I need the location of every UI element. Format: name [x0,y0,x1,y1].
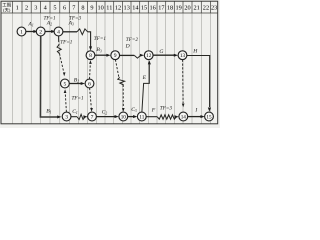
svg-text:22: 22 [203,5,209,12]
svg-text:1: 1 [20,29,23,35]
activity I arrow 14->15 [188,116,203,118]
svg-text:8: 8 [89,53,92,59]
activity G arrow 12->13 [153,54,175,56]
svg-text:14: 14 [132,5,139,12]
svg-text:G: G [159,49,163,55]
svg-text:2: 2 [39,29,42,35]
svg-text:D: D [125,44,130,50]
svg-text:19: 19 [176,5,182,12]
activity B3 arrow 8->9 [95,54,108,56]
svg-text:16: 16 [150,5,156,12]
dummy 9->10 dashed with wave [115,60,119,78]
node 2 [36,27,45,36]
svg-text:14: 14 [181,114,187,120]
svg-text:13: 13 [124,5,130,12]
header scale numbers 1-23 [16,5,218,12]
svg-text:13: 13 [180,53,186,59]
activity E arrow 11->12 (up with jog) [142,64,149,112]
node 11 [137,112,146,121]
activity D arrow 9->12 with wave [120,54,135,56]
svg-text:3: 3 [34,5,37,12]
svg-text:5: 5 [53,5,56,12]
dummy 6->8 dashed up arrow [89,65,92,80]
svg-text:F: F [151,107,156,113]
activity H arrow 13->15 (right then down) [187,56,210,108]
activity B1 arrow 2->3 (down then right) [40,36,58,117]
activity A1 arrow 1->2 [26,31,37,33]
header cell separators [13,1,211,13]
svg-text:15: 15 [141,5,147,12]
svg-text:TF=1: TF=1 [72,96,85,102]
svg-text:17: 17 [158,5,164,12]
svg-text:6: 6 [88,81,91,87]
node 4 [54,27,63,36]
svg-text:21: 21 [194,5,200,12]
svg-text:3: 3 [65,114,68,120]
node 8 [86,51,95,60]
svg-text:7: 7 [91,114,94,120]
node 9 [111,51,120,60]
svg-text:TF=1: TF=1 [60,39,73,45]
node 12 [144,51,153,60]
svg-text:TF=1: TF=1 [44,16,57,22]
svg-text:9: 9 [90,5,93,12]
node 1 [17,27,26,36]
svg-text:4: 4 [57,29,60,35]
svg-text:7: 7 [72,5,75,12]
svg-text:6: 6 [63,5,66,12]
svg-text:1: 1 [16,5,19,12]
activity C1 arrow 3->7 with wave [71,116,77,118]
svg-text:15: 15 [206,114,212,120]
svg-text:12: 12 [146,53,152,59]
node 15 [205,112,214,121]
svg-text:10: 10 [121,114,127,120]
activity B2 arrow 5->6 [69,83,82,85]
grid column lines [13,13,211,124]
node 5 [61,79,70,88]
dummy 4->5 dashed with wave, TF=1 [58,36,60,40]
activity A2 arrow 2->4 [45,31,55,33]
svg-text:TF=3: TF=3 [69,16,82,22]
svg-text:10: 10 [98,5,104,12]
svg-text:TF=1: TF=1 [94,36,107,42]
svg-text:8: 8 [81,5,84,12]
table outer border [1,1,218,124]
svg-text:18: 18 [167,5,173,12]
svg-text:2: 2 [25,5,28,12]
node 7 [88,112,97,121]
dummy 6->7 dashed down arrow [90,88,92,108]
node 13 [178,51,187,60]
node 14 [179,112,188,121]
activity A3 arrow 4->8 with free-float wave [63,31,77,33]
svg-text:TF=2: TF=2 [126,37,139,43]
svg-text:9: 9 [114,53,117,59]
header bottom rule [1,12,218,14]
svg-text:20: 20 [184,5,190,12]
node 10 [119,112,128,121]
svg-text:23: 23 [211,5,217,12]
node 3 [62,112,71,121]
svg-text:11: 11 [106,5,112,12]
node 6 [85,79,94,88]
dummy 13->14 dashed down arrow [182,60,185,103]
activity C2 arrow 7->10 [96,116,116,118]
svg-text:11: 11 [139,114,144,120]
activity C3 arrow 10->11 [128,116,135,118]
activity F arrow 11->14 with long wave TF=3 [146,116,157,118]
dummy 3->5 dashed up arrow [65,94,66,112]
svg-text:12: 12 [115,5,121,12]
svg-text:5: 5 [64,81,67,87]
svg-text:E: E [142,75,147,81]
svg-text:TF=3: TF=3 [160,106,173,112]
